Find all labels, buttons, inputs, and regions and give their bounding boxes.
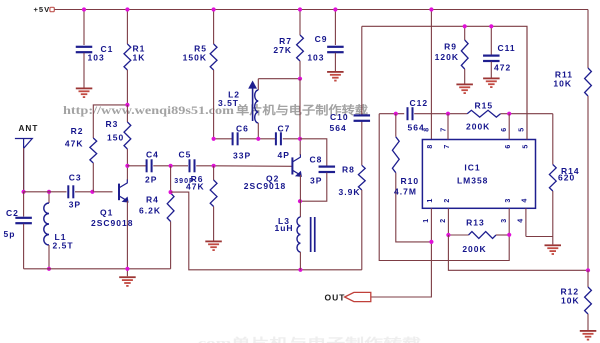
pin 7 stub: [447, 114, 449, 140]
svg-text:C2: C2: [6, 208, 19, 218]
node pin6: [507, 112, 511, 116]
svg-text:Q1: Q1: [100, 208, 113, 218]
svg-text:200K: 200K: [466, 122, 490, 132]
inductor L1: [44, 203, 49, 245]
wire R3 bottom lead: [126, 149, 128, 180]
label L1 value 2.5T: [53, 241, 74, 251]
label R1: [133, 44, 146, 54]
label C11 value 472: [494, 63, 511, 73]
watermark bottom fragment: [193, 336, 422, 343]
svg-text:564: 564: [408, 123, 425, 133]
node rail-R1: [125, 7, 129, 11]
wire +5V to IC1 pin 8: [430, 10, 432, 140]
svg-text:2.5T: 2.5T: [53, 241, 74, 251]
svg-text:6.2K: 6.2K: [139, 206, 161, 216]
ground C11: [483, 78, 500, 89]
label C12 value 564: [408, 123, 425, 133]
resistor R3: [124, 122, 131, 149]
svg-text:1: 1: [427, 199, 434, 203]
label R8 value 3.9K: [339, 187, 361, 197]
label C1: [101, 44, 114, 54]
svg-text:4.7M: 4.7M: [394, 187, 417, 197]
wire R2 bottom lead: [92, 163, 94, 192]
node R4 tap: [169, 190, 173, 194]
capacitor C1: [76, 46, 93, 54]
label C4 value 2P: [145, 175, 157, 185]
wire R15 to pin6: [501, 113, 510, 115]
pin 4 stub: [525, 208, 527, 236]
label Q1: [100, 208, 113, 218]
resistor R6: [210, 180, 217, 207]
label C5: [179, 150, 192, 160]
wire R7 to L2: [258, 78, 300, 80]
pin number 6 outside: [501, 128, 508, 132]
label C8 value 3P: [310, 176, 322, 186]
wire L2 bottom lead: [257, 123, 259, 139]
capacitor C9: [327, 46, 344, 54]
svg-text:OUT: OUT: [325, 293, 346, 303]
svg-text:http://www.wenqi89s51.com: http://www.wenqi89s51.com: [63, 105, 235, 117]
pin name 7 inside: [444, 145, 451, 149]
wire audio net: [362, 26, 527, 139]
label OUT: [325, 293, 346, 303]
node ANT junction: [22, 190, 26, 194]
ground R6: [205, 241, 222, 252]
capacitor C3: [67, 185, 74, 198]
node audio-R9: [463, 24, 467, 28]
svg-text:564: 564: [330, 123, 347, 133]
wire C1 top: [83, 10, 85, 46]
wire R1 top lead: [126, 10, 128, 45]
wire pin2 down: [448, 235, 588, 270]
op-amp IC1 box: [422, 140, 535, 209]
label R15: [475, 101, 494, 111]
wire R10 bottom lead: [396, 173, 432, 242]
label L2 value 3.5T: [218, 98, 239, 108]
wire C11 top: [490, 26, 492, 54]
wire R14 top lead: [552, 114, 554, 165]
watermark text: [63, 103, 369, 117]
label IC1: [464, 163, 480, 173]
wire C2 bottom: [23, 224, 25, 269]
label R15 value 200K: [466, 122, 490, 132]
svg-text:IC1: IC1: [464, 163, 480, 173]
pin 1 stub: [430, 208, 432, 242]
pin name 1 inside: [427, 199, 434, 203]
svg-text:5p: 5p: [4, 229, 16, 239]
wire ground bus: [24, 268, 171, 270]
wire pin3 riser: [379, 114, 509, 261]
svg-text:620: 620: [558, 173, 575, 183]
node pin7: [446, 112, 450, 116]
capacitor C6: [232, 132, 239, 145]
wire L2 top lead: [257, 79, 259, 90]
wire C11 gnd stub: [490, 62, 492, 78]
resistor R13: [469, 232, 497, 239]
label C10 value 564: [330, 123, 347, 133]
label R11 value 10K: [553, 79, 572, 89]
svg-text:7: 7: [440, 128, 447, 132]
pin 5 stub: [526, 26, 528, 139]
svg-text:R3: R3: [106, 119, 119, 129]
svg-text:150K: 150K: [183, 53, 207, 63]
wire R11 bottom lead: [587, 96, 589, 270]
pin number 8 outside: [423, 128, 430, 132]
resistor R11: [585, 68, 592, 96]
wire Q2 emitter down: [299, 175, 301, 217]
wire R5 bottom lead: [213, 70, 215, 139]
svg-text:ANT: ANT: [19, 124, 39, 133]
svg-text:LM358: LM358: [457, 176, 488, 186]
svg-text:8: 8: [427, 145, 434, 149]
resistor R14: [549, 165, 556, 192]
label R4 value 6.2K: [139, 206, 161, 216]
svg-text:1uH: 1uH: [275, 223, 294, 233]
svg-text:C6: C6: [236, 124, 249, 134]
label IC1 part LM358: [457, 176, 488, 186]
wire C12 left: [379, 113, 404, 115]
svg-text:C12: C12: [410, 98, 429, 108]
svg-text:472: 472: [494, 63, 511, 73]
capacitor C2: [15, 217, 32, 225]
wire R7 vertical: [299, 79, 301, 155]
wire right rail drop: [587, 10, 589, 69]
wire R5 top lead: [213, 10, 215, 45]
ground R14-pin4: [545, 244, 562, 255]
svg-text:C5: C5: [179, 150, 192, 160]
resistor R8: [358, 165, 365, 190]
label R6: [191, 174, 204, 184]
L2 tuning arrow: [248, 81, 257, 122]
svg-text:C11: C11: [498, 43, 516, 53]
wire C5 to R6: [196, 165, 213, 167]
resistor R5: [210, 44, 217, 70]
label R13: [466, 218, 485, 228]
label C1 value 103: [88, 53, 105, 63]
wire Q1 emitter down: [126, 201, 128, 269]
wire R4 bottom lead: [170, 222, 172, 269]
svg-text:2P: 2P: [145, 175, 157, 185]
wire R8 bottom lead: [361, 190, 363, 270]
wire C7 to Q2 collector: [283, 138, 300, 140]
node R1-R2-R3: [125, 103, 129, 107]
node Q1 collector: [125, 164, 129, 168]
wire R10 top lead: [395, 114, 397, 137]
pin number 4 outside: [518, 219, 525, 223]
svg-text:7: 7: [444, 145, 451, 149]
capacitor C8: [319, 166, 336, 174]
transistor Q2: [292, 154, 302, 177]
svg-text:2: 2: [444, 199, 451, 203]
svg-text:6: 6: [505, 145, 512, 149]
capacitor C12: [407, 107, 414, 120]
wire R12 gnd stub: [587, 314, 589, 330]
label Q1 part 2SC9018: [91, 218, 133, 228]
svg-text:R2: R2: [71, 126, 84, 136]
node rail-C9: [333, 7, 337, 11]
wire R9 gnd stub: [464, 69, 466, 84]
pin name 8 inside: [427, 145, 434, 149]
label R5: [194, 44, 207, 54]
svg-text:1K: 1K: [133, 53, 146, 63]
svg-text:47K: 47K: [65, 138, 84, 148]
node pin3: [507, 233, 511, 237]
wire R7 top lead: [299, 10, 301, 36]
svg-text:C7: C7: [278, 124, 291, 134]
node R10 top: [394, 112, 398, 116]
label C6: [236, 124, 249, 134]
node L1 bottom: [47, 267, 51, 271]
svg-text:2: 2: [440, 219, 447, 223]
wire L3 bottom lead: [299, 252, 301, 270]
label C2: [6, 208, 19, 218]
capacitor C10: [354, 114, 371, 122]
wire R6 top lead: [213, 166, 215, 180]
node Q2 collector: [298, 137, 302, 141]
svg-text:R13: R13: [466, 218, 485, 228]
svg-text:R4: R4: [146, 195, 159, 205]
label C12: [410, 98, 429, 108]
wire R5 to C6: [214, 138, 233, 140]
label R8: [342, 165, 355, 175]
wire pin2 to R13: [448, 234, 468, 236]
label L3 value 1uH: [275, 223, 294, 233]
svg-text:+5V: +5V: [34, 5, 51, 14]
label R2: [71, 126, 84, 136]
pin name 6 inside: [505, 145, 512, 149]
label C4: [146, 150, 159, 160]
svg-text:R9: R9: [444, 42, 457, 52]
wire antenna down: [23, 148, 25, 192]
pin 6 stub: [508, 114, 510, 140]
svg-text:3.9K: 3.9K: [339, 187, 361, 197]
label C2 value 5p: [4, 229, 16, 239]
wire C8 top: [300, 139, 327, 166]
svg-text:103: 103: [88, 53, 105, 63]
svg-text:C4: C4: [146, 150, 159, 160]
svg-text:3.5T: 3.5T: [218, 98, 239, 108]
capacitor C11: [483, 55, 500, 63]
L3 core bars: [310, 217, 316, 252]
resistor R4: [167, 193, 174, 222]
capacitor C4: [146, 159, 153, 172]
label R6 value 47K: [186, 181, 205, 191]
label R7 value 27K: [273, 45, 292, 55]
node L2-C6-C7: [256, 137, 260, 141]
wire R6 to Q2 base: [214, 165, 293, 168]
resistor R9: [461, 40, 468, 69]
wire L1 top lead: [48, 192, 50, 203]
svg-text:2SC9018: 2SC9018: [91, 218, 133, 228]
node R7-L2: [298, 77, 302, 81]
label C3: [69, 173, 82, 183]
wire C3 to Q1 base: [75, 191, 113, 193]
node Q2 emitter: [298, 199, 302, 203]
label R11: [555, 70, 573, 80]
node C3-R2-base: [90, 190, 94, 194]
node rail-C1: [82, 7, 86, 11]
pin name 2 inside: [444, 199, 451, 203]
wire R2 top bend: [93, 105, 127, 138]
svg-text:3P: 3P: [310, 176, 322, 186]
label C7 value 4P: [278, 150, 290, 160]
node rail-R5: [212, 7, 216, 11]
wire +5V rail: [54, 9, 588, 11]
node rail-pin8: [429, 7, 433, 11]
node C5-R6: [212, 164, 216, 168]
label C9: [315, 34, 328, 44]
label L3: [278, 216, 290, 226]
resistor R1: [124, 44, 131, 70]
node R5-C6: [212, 137, 216, 141]
label R3 value 150: [107, 133, 124, 143]
node pin1-R10: [429, 240, 433, 244]
wire C6 to L2: [240, 138, 259, 140]
label R9 value 120K: [435, 52, 459, 62]
wire ANT to C3: [24, 191, 67, 193]
resistor R12: [585, 287, 592, 314]
wire R7 bottom lead: [299, 61, 301, 79]
svg-text:C10: C10: [330, 112, 349, 122]
label R12: [561, 287, 580, 297]
label C7: [278, 124, 291, 134]
label R9: [444, 42, 457, 52]
resistor R10: [392, 137, 399, 173]
svg-text:47K: 47K: [186, 181, 205, 191]
node divider: [586, 268, 590, 272]
label C9 value 103: [307, 53, 324, 63]
label C3 value 3P: [69, 200, 81, 210]
pin number 5 outside: [519, 128, 526, 132]
label R4: [146, 195, 159, 205]
node L3 bottom: [298, 268, 302, 272]
ground C9: [327, 71, 344, 82]
label C5 value 390P: [174, 177, 195, 185]
wire C10-R8: [361, 121, 363, 165]
pin name 3 inside: [505, 199, 512, 203]
wire C8 bottom: [300, 173, 327, 202]
svg-text:2SC9018: 2SC9018: [244, 181, 286, 191]
wire C12 to pin7: [414, 113, 448, 115]
label C10: [330, 112, 349, 122]
ground C1: [76, 88, 93, 99]
label R10 value 4.7M: [394, 187, 417, 197]
transistor Q1: [119, 180, 129, 203]
svg-text:3: 3: [501, 219, 508, 223]
svg-text:103: 103: [307, 53, 324, 63]
wire L1 bottom lead: [48, 245, 50, 269]
label C11: [498, 43, 516, 53]
svg-text:1: 1: [423, 219, 430, 223]
ground main: [119, 276, 136, 287]
label R7: [279, 36, 292, 46]
svg-text:3: 3: [505, 199, 512, 203]
wire C9 top: [334, 10, 336, 46]
wire R3 top lead: [126, 105, 128, 122]
label R2 value 47K: [65, 138, 84, 148]
wire R1 bottom lead: [126, 70, 128, 105]
label C8: [310, 155, 323, 165]
svg-text:C8: C8: [310, 155, 323, 165]
svg-text:200K: 200K: [462, 244, 486, 254]
label R14: [561, 166, 580, 176]
wire R4 tap to corner: [171, 192, 362, 270]
inductor L2: [255, 90, 259, 123]
svg-text:5: 5: [523, 145, 530, 149]
label R5 value 150K: [183, 53, 207, 63]
label C6 value 33P: [233, 151, 251, 161]
pin 3 stub: [508, 208, 510, 235]
antenna ANT symbol: [15, 139, 32, 192]
label R13 value 200K: [462, 244, 486, 254]
label R1 value 1K: [133, 53, 146, 63]
wire L2 to C7: [258, 138, 276, 140]
svg-text:6: 6: [501, 128, 508, 132]
+5V power label: [34, 5, 51, 14]
label R14 value 620: [558, 173, 575, 183]
wire C1 bottom: [83, 53, 85, 88]
label Q2: [266, 174, 279, 184]
pin number 2 outside: [440, 219, 447, 223]
node audio-C11: [489, 24, 493, 28]
wire R9 top lead: [464, 26, 466, 40]
OUT connector: [345, 292, 371, 301]
svg-text:10K: 10K: [553, 79, 572, 89]
svg-text:.com单片机与电子制作转载: .com单片机与电子制作转载: [193, 336, 422, 343]
svg-text:8: 8: [423, 128, 430, 132]
inductor L3: [297, 217, 300, 252]
wire R13 to pin3: [496, 234, 509, 236]
svg-text:R10: R10: [401, 176, 420, 186]
label ANT: [19, 124, 39, 133]
wire pin7 to R15: [448, 113, 467, 115]
label L2: [228, 90, 240, 100]
resistor R15: [467, 110, 500, 117]
pin number 1 outside: [423, 219, 430, 223]
pin name 4 inside: [522, 199, 529, 203]
wire C9 bottom: [334, 53, 336, 71]
wire R12 top lead: [587, 270, 589, 287]
wire C10 top: [361, 26, 363, 115]
label R3: [106, 119, 119, 129]
node pin2: [446, 233, 450, 237]
svg-text:4: 4: [518, 219, 525, 223]
svg-text:120K: 120K: [435, 52, 459, 62]
ground R12: [580, 330, 597, 341]
svg-text:3P: 3P: [69, 200, 81, 210]
capacitor C7: [275, 132, 282, 145]
capacitor C5: [189, 159, 196, 172]
label L1: [55, 232, 67, 242]
svg-text:R8: R8: [342, 165, 355, 175]
node emitter-ground: [125, 267, 129, 271]
pin name 5 inside: [523, 145, 530, 149]
node C4-C5-R4: [169, 164, 173, 168]
pin 2 stub: [447, 208, 449, 235]
wire pin6 to R14: [509, 113, 553, 115]
node rail-R7: [298, 7, 302, 11]
resistor R2: [90, 138, 97, 163]
+5V terminal: [50, 7, 54, 11]
label Q2 part 2SC9018: [244, 181, 286, 191]
ground R9: [456, 84, 473, 95]
wire collector to C4: [127, 165, 146, 167]
wire C2 top: [23, 192, 25, 217]
svg-text:4P: 4P: [278, 150, 290, 160]
resistor R7: [297, 35, 304, 61]
wire pin1 down: [371, 242, 432, 297]
svg-text:4: 4: [522, 199, 529, 203]
